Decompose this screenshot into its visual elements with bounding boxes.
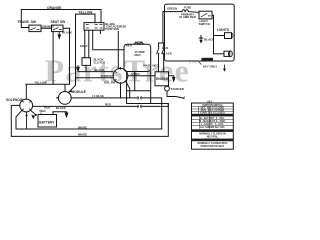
wire lamp1 [214, 35, 225, 37]
svg-text:YELLOW: YELLOW [35, 81, 47, 85]
solenoid circle [20, 99, 33, 112]
wire black to ign sw [78, 71, 113, 73]
legend header bands [192, 114, 234, 117]
svg-text:WHITE: WHITE [78, 125, 87, 129]
wire lamp2 [214, 53, 225, 55]
leader key only [198, 61, 202, 64]
solenoid lug diagonal [27, 111, 35, 130]
svg-text:NORMALLY CLOSED WITH: NORMALLY CLOSED WITH [197, 142, 227, 145]
wire fusebox bottom drop [127, 72, 169, 107]
svg-text:NEG.: NEG. [153, 63, 160, 67]
svg-text:TRANS SWITCH: TRANS SWITCH [203, 129, 221, 132]
wire ign switch riser [117, 32, 119, 69]
svg-text:BLACK: BLACK [56, 106, 67, 110]
svg-text:RED: RED [40, 109, 46, 113]
fuse housing outline [124, 44, 151, 71]
arrow below lights [224, 65, 226, 70]
svg-text:MAG.: MAG. [143, 63, 151, 67]
light switch box [199, 11, 212, 19]
svg-text:GREEN: GREEN [167, 6, 177, 10]
svg-text:BATTERY: BATTERY [39, 121, 55, 125]
svg-text:POSITION: POSITION [105, 27, 119, 31]
wire light switch out [212, 15, 214, 54]
wire junction down from seat rail [52, 32, 54, 85]
svg-text:YELLOW: YELLOW [78, 10, 93, 14]
label green box [202, 58, 214, 62]
svg-text:KEY: KEY [208, 101, 213, 103]
svg-text:A-RED: A-RED [131, 72, 140, 76]
starter circle [165, 86, 170, 91]
svg-text:NORMALLY CLOSED IN: NORMALLY CLOSED IN [199, 133, 226, 136]
ground arrow seat [58, 32, 60, 35]
svg-text:FUSE: FUSE [135, 40, 143, 44]
ground arrow blade [77, 65, 79, 67]
ignition switch circle [113, 68, 128, 83]
svg-text:NEUTRAL: NEUTRAL [207, 136, 219, 139]
connector arrow starter [183, 96, 185, 99]
engine box [155, 72, 169, 86]
wire red run solenoid [33, 105, 168, 107]
ground lights stub [199, 36, 203, 40]
lamp 2 [224, 51, 230, 56]
wire solenoid top yellow run [26, 84, 70, 99]
wire module box stub [99, 30, 101, 33]
ground arrow lights [199, 40, 202, 44]
battery box [38, 115, 57, 128]
switch green blade 2 [162, 43, 164, 72]
svg-text:RED: RED [135, 53, 141, 57]
wire ign sw diagonal [126, 81, 130, 98]
wire yellow loop diag to module [69, 14, 76, 92]
svg-text:BLACK: BLACK [95, 68, 106, 72]
ground arrow battery [65, 113, 69, 119]
wire module box pin to fusebox [93, 30, 124, 50]
svg-text:20 AMP RED: 20 AMP RED [179, 15, 196, 19]
junction dots green switches [158, 53, 160, 55]
wire lt blue run [71, 98, 162, 129]
svg-text:LIGHTS: LIGHTS [217, 28, 230, 32]
legend table rows [197, 105, 227, 148]
svg-text:BLACK: BLACK [62, 31, 73, 35]
svg-text:STARTER: STARTER [171, 87, 184, 91]
wire blade clutch down [85, 65, 87, 71]
wire purple to ign sw [76, 77, 113, 79]
wire green lights [163, 11, 199, 14]
wire yellow loop left [69, 28, 71, 84]
module circle [58, 92, 71, 105]
seat switch SW2 box [52, 25, 64, 32]
svg-text:RED: RED [126, 43, 132, 47]
wire trans to seat bottom rail [21, 27, 69, 30]
svg-text:SEAT SWITCH: SEAT SWITCH [204, 139, 220, 142]
svg-text:CLUTCH: CLUTCH [94, 61, 106, 65]
transmission switch SW1 box [29, 25, 41, 32]
svg-text:KEY SWITCH WIRE CODE: KEY SWITCH WIRE CODE [198, 115, 227, 117]
legend box [192, 103, 234, 149]
svg-text:SOLENOID: SOLENOID [6, 98, 24, 102]
wire yellow loop top [76, 14, 96, 23]
svg-text:ORANGE: ORANGE [42, 25, 55, 29]
wire white outer loop [11, 104, 168, 137]
svg-text:ENGINE: ENGINE [156, 77, 169, 81]
fuse 15amp symbol [134, 43, 144, 45]
blade clutch box [82, 58, 91, 66]
lamp 1 [225, 33, 232, 39]
svg-text:TRANS. SW: TRANS. SW [18, 20, 37, 24]
battery ground wire [53, 112, 67, 115]
svg-text:GREEN: GREEN [203, 59, 212, 62]
svg-text:PURPLE: PURPLE [101, 74, 113, 78]
connector squiggles on lt blue and red wires [138, 96, 142, 108]
connector arrow solenoid [31, 115, 35, 120]
switch green blade 1 [157, 43, 159, 72]
watermark PartsTree [45, 53, 197, 89]
wire green drop [159, 12, 164, 43]
wire module box pin gray [85, 30, 89, 58]
svg-text:ORANGE: ORANGE [47, 6, 62, 10]
svg-text:GRAY: GRAY [80, 44, 88, 48]
svg-text:BLACK: BLACK [162, 52, 173, 56]
svg-text:WHITE: WHITE [78, 133, 87, 137]
wire top-left loop orange [21, 10, 101, 28]
svg-text:OPERATOR ON SEAT: OPERATOR ON SEAT [200, 145, 224, 148]
arrowhead module diag [68, 89, 72, 92]
svg-text:MODULE: MODULE [72, 90, 87, 94]
wire a-red ign to engine [128, 75, 155, 77]
svg-text:SEAT SW: SEAT SW [51, 20, 67, 24]
svg-text:IGN. SW: IGN. SW [104, 81, 116, 85]
svg-text:FUSE: FUSE [184, 5, 192, 9]
wire starter to connector [167, 91, 183, 98]
svg-text:RED: RED [162, 46, 168, 50]
interlock module box [84, 23, 104, 31]
lights section frame [165, 4, 235, 61]
wire white inner loop [16, 111, 162, 129]
ground arrow engine [172, 77, 176, 83]
fuse primary symbol [182, 10, 189, 12]
svg-text:BLACK: BLACK [204, 38, 215, 42]
wire engine ground stub [169, 76, 174, 77]
wire ign sw bottom [120, 83, 122, 98]
svg-text:KEY ONLY: KEY ONLY [203, 65, 217, 69]
svg-text:LT. BLUE: LT. BLUE [92, 94, 104, 98]
svg-text:RED: RED [105, 103, 111, 107]
svg-text:SWITCH: SWITCH [199, 22, 210, 26]
svg-text:ALL SHOWN KEY OFF: ALL SHOWN KEY OFF [200, 126, 225, 129]
